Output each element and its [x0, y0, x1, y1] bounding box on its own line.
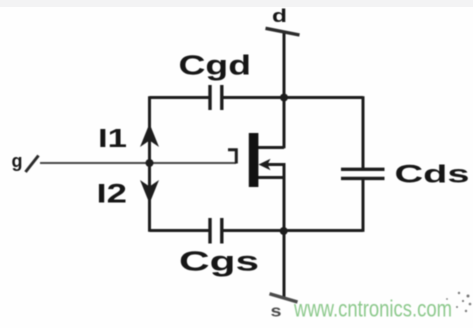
svg-text:Cgs: Cgs — [179, 246, 259, 277]
svg-text:I2: I2 — [97, 179, 128, 209]
svg-text:I1: I1 — [98, 123, 127, 153]
svg-text:Cgd: Cgd — [179, 50, 252, 81]
svg-text:g: g — [12, 151, 23, 171]
svg-text:d: d — [272, 5, 287, 26]
svg-text:s: s — [271, 302, 282, 321]
svg-text:www.cntronics.com: www.cntronics.com — [293, 296, 452, 322]
svg-text:Cds: Cds — [395, 161, 470, 189]
